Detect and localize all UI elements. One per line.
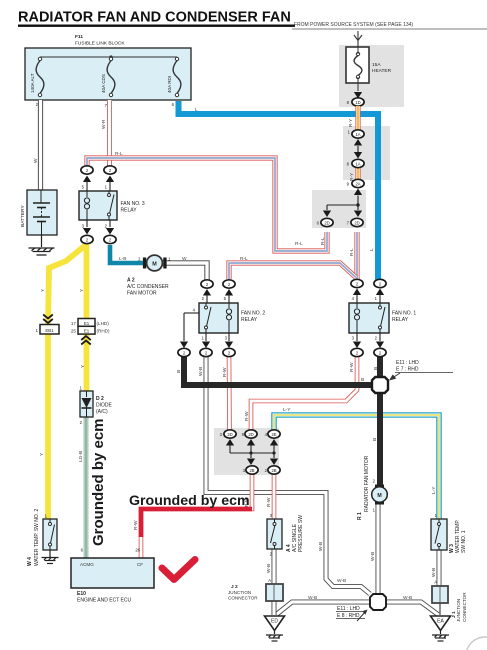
relay FAN NO.2	[184, 303, 265, 333]
svg-text:(LHD): (LHD)	[97, 321, 110, 326]
battery ground	[29, 235, 55, 255]
wire L-Y connector 2E pin4 to water temp switch no.1	[274, 415, 439, 519]
svg-text:R-W: R-W	[266, 497, 272, 507]
relay FAN NO.1	[349, 303, 416, 333]
svg-text:FAN MOTOR: FAN MOTOR	[127, 291, 157, 297]
connector below fan3 pin2	[104, 235, 116, 243]
svg-text:E1: E1	[84, 329, 90, 334]
connector above fan3 relay pin1	[104, 166, 116, 174]
wire W condenser fan motor to fan no.2 relay pin2	[162, 263, 207, 280]
connector above fan2 pin2	[201, 280, 213, 288]
arrow from fan3 pin2	[106, 220, 114, 235]
svg-text:R-L: R-L	[349, 248, 355, 256]
arrow to fan3 pin5	[83, 176, 91, 192]
svg-text:EA: EA	[437, 619, 444, 625]
wire R-L fan no.3 relay pin5 to connector 2D pin6	[87, 158, 327, 251]
svg-text:L: L	[369, 248, 375, 251]
wire R-W connector 2B pin3 to ECU pin CF	[141, 474, 252, 558]
wire W-B water temp sw1 to J1 to EA ground	[439, 550, 440, 615]
svg-text:140A ALT: 140A ALT	[30, 73, 35, 93]
wire R-L connector 2D pin7 to fan relays	[229, 232, 357, 279]
wire L blue from F11 pin6 to fan no.1 relay	[179, 101, 379, 280]
wire W-B octagon to EA ground	[386, 602, 438, 615]
connector below fan2 pin3	[223, 348, 235, 356]
svg-text:CF: CF	[137, 562, 143, 567]
connector above fan1 pin4	[351, 279, 363, 287]
header: from power source system	[292, 22, 487, 29]
svg-text:W-B: W-B	[370, 552, 376, 561]
wire Y below EB1 to water temp switch no.2	[45, 334, 51, 519]
connector 9 2A	[347, 179, 364, 187]
svg-text:ENGINE AND ECT ECU: ENGINE AND ECT ECU	[77, 598, 131, 604]
wire W-B A4 pressure switch to J2 to ED ground	[272, 549, 277, 615]
svg-text:2B: 2B	[271, 468, 276, 473]
arrow from fan2 pin1	[202, 333, 210, 348]
wire R-W connector 2B pin2 to A4 pressure switch	[272, 474, 277, 519]
svg-text:W-B: W-B	[337, 578, 346, 584]
svg-text:R-W: R-W	[244, 411, 250, 421]
shaded connector region: 1A connectors	[343, 126, 390, 180]
svg-text:40A RDI: 40A RDI	[167, 76, 172, 93]
connector 4 2E	[265, 430, 280, 438]
connector 7 2D	[347, 218, 363, 226]
svg-text:E11 : LHD: E11 : LHD	[396, 360, 419, 366]
svg-text:RADIATOR FAN MOTOR: RADIATOR FAN MOTOR	[364, 455, 370, 512]
svg-text:1A: 1A	[355, 162, 360, 167]
arrow from fan1 pin3	[353, 333, 361, 348]
svg-text:WATER TEMP. SW NO. 2: WATER TEMP. SW NO. 2	[34, 508, 40, 566]
wire B octagon to radiator fan motor	[377, 393, 383, 487]
wire R-Y heater fuse to 1A	[355, 106, 360, 130]
connector below fan2 pin4	[178, 348, 190, 356]
W4 ground	[42, 550, 59, 564]
svg-text:B: B	[373, 367, 379, 370]
pin 4 wire fan2	[180, 313, 188, 348]
svg-text:E1: E1	[84, 321, 90, 326]
svg-text:A: A	[268, 578, 271, 583]
svg-text:F11: F11	[75, 34, 83, 40]
ground junction octagon E11/E8	[370, 594, 386, 610]
arrow from fan2 pin3	[225, 333, 233, 348]
ground point EA	[431, 616, 451, 641]
junction connector J1	[432, 580, 467, 623]
svg-text:D 2: D 2	[96, 396, 104, 402]
connector below fan3 pin3	[81, 235, 93, 243]
wire Y below E1 to diode	[84, 334, 90, 391]
svg-text:26: 26	[135, 548, 140, 553]
wire R-W fan no.1 relay pin3 to connector 2D pin8	[251, 355, 357, 430]
connector 8 2D	[242, 430, 257, 438]
svg-text:E10: E10	[77, 591, 86, 597]
svg-text:HEATER: HEATER	[372, 68, 392, 74]
svg-text:R-L: R-L	[295, 241, 303, 247]
svg-text:EB1: EB1	[45, 328, 54, 333]
svg-text:W-B: W-B	[266, 564, 272, 573]
shaded connector region: 2A-2D connectors	[312, 190, 366, 228]
arrows between 1A connectors	[354, 139, 362, 159]
ground point ED	[265, 616, 285, 641]
connector below fan1 pin2	[374, 348, 386, 356]
svg-text:R 1: R 1	[357, 512, 363, 520]
connector below fan1 pin3	[351, 348, 363, 356]
wire R-W fan no.2 relay pin3 to connector 2D pin3	[227, 355, 232, 430]
svg-text:CONNECTOR: CONNECTOR	[228, 596, 258, 601]
label E11 LHD E8 RHD	[336, 606, 368, 621]
arrow to fan1 pin4	[353, 289, 361, 304]
svg-text:RELAY: RELAY	[241, 317, 258, 323]
wire Y fan no.3 relay pin3 to E1	[84, 243, 90, 320]
switch W3 water temp no.1	[431, 513, 467, 553]
svg-text:A: A	[434, 580, 437, 585]
wire W-R from F11 pin7 to fan no.3 relay pin1	[107, 100, 112, 166]
fusible link 40A CDS	[101, 57, 115, 96]
annotation red checkmark	[162, 560, 195, 580]
wire W-B octagon to ED ground	[277, 602, 370, 614]
svg-text:FROM POWER SOURCE SYSTEM (SEE: FROM POWER SOURCE SYSTEM (SEE PAGE 134)	[294, 22, 413, 28]
svg-text:PRESSURE SW: PRESSURE SW	[298, 515, 304, 552]
svg-text:BATTERY: BATTERY	[20, 205, 26, 227]
switch A4 A/C single pressure	[267, 513, 304, 557]
svg-text:R-L: R-L	[115, 151, 123, 157]
svg-text:Grounded by ecm: Grounded by ecm	[90, 418, 107, 546]
svg-text:W-B: W-B	[403, 595, 412, 601]
annotation line grounded-by-ecm trace	[141, 509, 252, 537]
fusible link 40A RDI	[167, 57, 181, 96]
svg-text:ED: ED	[271, 619, 278, 625]
svg-text:W: W	[33, 158, 39, 163]
svg-text:Grounded by ecm: Grounded by ecm	[129, 493, 250, 509]
svg-text:W: W	[182, 256, 187, 262]
connector 8 1A	[347, 159, 364, 167]
arrow from power source	[354, 31, 362, 47]
svg-text:RELAY: RELAY	[121, 208, 138, 214]
arrows and bus between 2D and 2B	[226, 439, 278, 465]
svg-text:FUSIBLE LINK BLOCK: FUSIBLE LINK BLOCK	[75, 41, 125, 47]
svg-text:L-Y: L-Y	[283, 407, 291, 413]
arrow from fan3 pin3	[83, 220, 91, 235]
connector above fan1 pin1	[374, 279, 386, 287]
svg-text:R-W: R-W	[222, 367, 228, 377]
arrow from fan1 pin2	[376, 333, 384, 348]
svg-text:(A/C): (A/C)	[96, 409, 108, 415]
wire W-B fan no.2 relay pin1 to ground octagon	[206, 355, 370, 594]
arrow below 2A and split bus	[323, 189, 362, 218]
svg-text:1A: 1A	[355, 132, 360, 137]
svg-text:R-Y: R-Y	[348, 118, 354, 127]
svg-text:2D: 2D	[227, 432, 232, 437]
svg-text:L: L	[195, 107, 198, 113]
connector above fan3 relay pin5	[81, 166, 93, 174]
arrow to fan1 pin1	[376, 289, 384, 304]
arrow to fan3 pin1	[106, 176, 114, 192]
svg-text:FAN NO. 1: FAN NO. 1	[392, 311, 416, 317]
chevrons above EB1	[43, 315, 53, 324]
svg-text:W-R: W-R	[101, 119, 107, 129]
svg-text:B: B	[372, 438, 378, 441]
svg-text:2D: 2D	[248, 432, 253, 437]
svg-text:2A: 2A	[355, 182, 360, 187]
svg-text:A/C CONDENSER: A/C CONDENSER	[127, 284, 169, 290]
motor R1 radiator fan	[357, 455, 387, 520]
svg-text:M: M	[377, 493, 381, 499]
wire R-Y 1A to 2A	[355, 167, 360, 179]
fusible link block F11	[25, 34, 191, 100]
svg-text:LG-B: LG-B	[78, 451, 84, 462]
chevrons below E1	[81, 336, 91, 345]
connector 8 1D	[347, 98, 364, 106]
diode D2 A/C	[80, 386, 113, 426]
svg-text:CONNECTOR: CONNECTOR	[462, 592, 467, 622]
connector EB1	[36, 325, 59, 335]
svg-text:L-Y: L-Y	[431, 486, 437, 494]
svg-text:R-W: R-W	[133, 520, 139, 530]
svg-text:1D: 1D	[355, 100, 360, 105]
svg-text:ACMG: ACMG	[80, 562, 94, 567]
svg-text:2E: 2E	[271, 432, 276, 437]
shaded connector region: heater fuse	[339, 45, 404, 107]
svg-text:DIODE: DIODE	[96, 403, 113, 409]
svg-text:JUNCTION: JUNCTION	[228, 590, 251, 595]
F11 internal bus wire	[40, 56, 177, 58]
arrow into connector 1D	[354, 92, 362, 99]
svg-text:L-B: L-B	[119, 256, 126, 262]
svg-text:R-L: R-L	[320, 237, 326, 245]
connector below fan2 pin1	[200, 348, 212, 356]
svg-text:15A: 15A	[372, 62, 381, 68]
shaded connector region: 2D-2E-2B connectors	[214, 428, 279, 475]
connector E1 LHD/RHD	[71, 319, 110, 335]
relay FAN NO.3	[79, 191, 145, 220]
svg-text:25: 25	[71, 329, 77, 334]
svg-text:B: B	[361, 377, 364, 383]
arrow to fan2 pin2	[203, 289, 211, 303]
svg-text:W-B: W-B	[308, 595, 317, 601]
svg-text:E 7 : RHD: E 7 : RHD	[396, 367, 419, 373]
wire Y fan no.3 relay pin3 branch to EB1	[48, 244, 87, 325]
connector 2 2B	[265, 466, 280, 474]
svg-text:B: B	[176, 370, 182, 373]
wire B fan no.1 relay pin2 to octagon E11	[377, 355, 383, 377]
svg-text:(RHD): (RHD)	[97, 329, 110, 334]
svg-text:17: 17	[71, 321, 77, 326]
arrow to fan2 pin5	[225, 289, 233, 303]
wire W battery feed from F11 pin2	[38, 100, 43, 190]
svg-text:FAN NO. 3: FAN NO. 3	[121, 201, 145, 207]
svg-text:RELAY: RELAY	[392, 317, 409, 323]
ECU E10 engine and ECT	[71, 548, 154, 604]
diagram title	[18, 10, 295, 27]
connector above fan2 pin5	[223, 280, 235, 288]
svg-text:W 4: W 4	[27, 557, 33, 566]
fusible link 140A ALT	[30, 57, 44, 96]
connector 3 2D	[220, 430, 236, 438]
svg-text:2D: 2D	[354, 221, 359, 226]
label E11 LHD E7 RHD	[389, 360, 453, 381]
svg-text:SW NO. 1: SW NO. 1	[461, 530, 467, 553]
wire B fan no.2 relay pin4 to octagon E11	[184, 355, 371, 385]
svg-text:W-B: W-B	[198, 367, 204, 376]
connector 6 2D	[317, 218, 333, 226]
svg-text:M: M	[152, 261, 157, 267]
wire W-B radiator fan motor to octagon E8	[376, 503, 381, 594]
page number circle fragment	[466, 637, 487, 650]
connector 3 2B	[243, 466, 258, 474]
svg-text:JUNCTION: JUNCTION	[456, 599, 461, 622]
fuse 15A HEATER	[346, 47, 392, 91]
svg-text:FAN NO. 2: FAN NO. 2	[241, 311, 265, 317]
svg-text:RADIATOR FAN AND CONDENSER FAN: RADIATOR FAN AND CONDENSER FAN	[18, 10, 291, 26]
ground junction octagon E11/E7	[372, 377, 388, 393]
svg-text:W-B: W-B	[431, 568, 437, 577]
svg-text:2B: 2B	[249, 468, 254, 473]
connector 1 1A	[348, 130, 364, 139]
wire LG-B diode to ECU pin ACMG	[84, 417, 89, 558]
switch W4 water temp no.2	[27, 508, 57, 566]
svg-text:R-L: R-L	[240, 256, 248, 262]
svg-text:R-W: R-W	[349, 362, 355, 372]
svg-text:A 2: A 2	[127, 278, 135, 284]
junction dot on F11 bus	[109, 55, 112, 58]
battery	[20, 190, 57, 235]
wire L-B fan no.3 relay pin2 to condenser fan motor	[110, 245, 146, 263]
svg-text:W-B: W-B	[318, 542, 324, 551]
svg-text:2D: 2D	[324, 221, 329, 226]
svg-text:40A CDS: 40A CDS	[101, 74, 106, 93]
junction connector J2	[228, 578, 283, 601]
motor A2 A/C condenser fan	[127, 255, 171, 296]
